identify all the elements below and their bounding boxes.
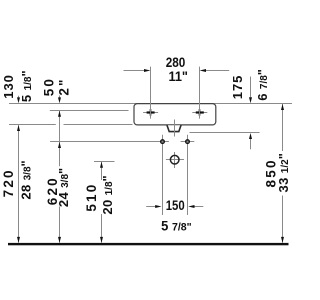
drain outlet circle xyxy=(166,152,184,168)
svg-text:175: 175 xyxy=(230,75,245,99)
tap cross left xyxy=(143,109,158,116)
dim 50 top arrow (at line A) xyxy=(58,96,61,104)
dim 150 left arrow xyxy=(146,205,161,208)
dim 510 line with arrows xyxy=(100,162,103,243)
washbasin body outline xyxy=(134,104,216,125)
svg-text:150: 150 xyxy=(166,198,185,213)
svg-text:510: 510 xyxy=(84,183,99,212)
dim 620 line with arrows xyxy=(58,111,61,243)
node F : 175mm drain-bottom reference line xyxy=(190,132,260,134)
svg-text:11": 11" xyxy=(168,68,188,84)
node C : 130mm / 720mm underside reference line xyxy=(9,124,56,126)
node D : 620mm fixing-hole reference line xyxy=(50,141,159,143)
svg-text:50: 50 xyxy=(42,77,57,96)
drain trapezoid xyxy=(167,125,181,131)
dim 720 line with arrows xyxy=(17,125,20,243)
dim 280 extension line left xyxy=(150,67,152,119)
svg-text:130: 130 xyxy=(1,74,16,98)
node E : 510mm outlet reference line xyxy=(94,161,115,163)
svg-text:2": 2" xyxy=(57,77,72,95)
dim 130 top arrow (at line A) xyxy=(17,96,20,103)
dim 175 top arrow xyxy=(249,77,252,104)
node B : 50mm reference line xyxy=(50,110,129,112)
svg-text:5 7/8": 5 7/8" xyxy=(161,218,192,233)
tap cross right xyxy=(192,109,207,116)
svg-text:720: 720 xyxy=(1,168,16,197)
dim 175 bottom arrow xyxy=(249,133,252,149)
dim 150 right arrow xyxy=(188,205,203,208)
floor line xyxy=(8,243,289,245)
fixing hole right xyxy=(181,135,195,215)
dim 280 right arrow xyxy=(200,69,230,72)
fixing hole left xyxy=(155,135,169,215)
drain centerline xyxy=(174,120,176,137)
dim 280 extension line right xyxy=(199,67,201,119)
dim 850 line with arrows xyxy=(281,104,284,243)
dim 280 left arrow xyxy=(124,69,151,72)
node A : top-of-rim reference line 850mm level xyxy=(9,103,292,105)
